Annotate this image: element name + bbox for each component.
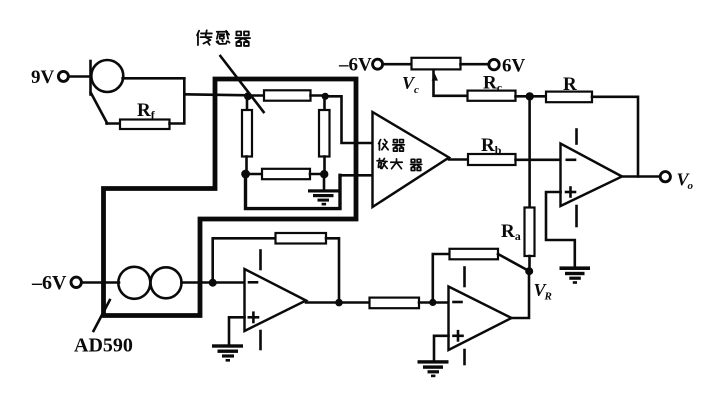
wire feedback resistor to output xyxy=(326,238,339,302)
wire to bridge top-left node xyxy=(184,94,248,95)
svg-text:AD590: AD590 xyxy=(74,335,133,357)
wire BL node around to amp lower input xyxy=(246,175,341,209)
label yi xyxy=(379,139,389,149)
terminal 6V circle xyxy=(489,59,499,69)
op-amp B top supply stub xyxy=(463,268,466,287)
node BL xyxy=(241,170,250,179)
pot wiper arrow xyxy=(432,74,438,81)
bridge resistor top xyxy=(264,90,311,100)
AD590 circle 1 xyxy=(118,267,150,299)
wire wiper down and right to Rc xyxy=(434,70,468,96)
node X junction xyxy=(526,92,534,100)
rail X down through Ra top xyxy=(528,96,531,207)
label da xyxy=(391,159,402,169)
node op-amp A output xyxy=(335,299,343,307)
label gan xyxy=(217,31,230,44)
feedback resistor op-amp A xyxy=(276,233,327,244)
wire op-amp A plus to ground xyxy=(229,317,245,344)
wire Rb to op-amp C inverting input xyxy=(516,159,561,162)
bridge resistor left xyxy=(242,110,252,157)
svg-text:o: o xyxy=(688,180,694,192)
bridge wire top resistor to TR xyxy=(311,94,326,97)
ground bridge xyxy=(308,189,339,205)
bridge wire BL to bottom resistor xyxy=(246,173,263,176)
svg-text:c: c xyxy=(414,84,419,96)
svg-text:–6V: –6V xyxy=(338,55,372,76)
label qi xyxy=(236,31,250,45)
label qi2 xyxy=(393,140,405,152)
wire op-amp B plus to ground xyxy=(434,336,449,361)
label 传感器 pointer slash xyxy=(220,56,263,112)
terminal -6V bottom circle xyxy=(71,277,81,287)
op-amp B xyxy=(449,287,512,351)
svg-text:R: R xyxy=(544,291,552,303)
wire coupling resistor to op-amp B xyxy=(419,301,449,304)
svg-text:–6V: –6V xyxy=(31,272,67,294)
ground op-amp C xyxy=(560,266,591,283)
wire op-amp B output to VR xyxy=(512,271,530,318)
op-amp B plus xyxy=(454,331,463,340)
bridge wire TL to top resistor xyxy=(248,94,264,97)
op-amp C bottom supply stub xyxy=(575,206,578,226)
wire Ra bottom to VR node xyxy=(528,256,531,271)
op-amp C top supply stub xyxy=(575,130,578,144)
svg-text:R: R xyxy=(563,74,577,95)
resistor R xyxy=(546,92,592,103)
wire -6V to AD590 xyxy=(81,281,119,284)
wire feedback diagonal to VR node xyxy=(498,254,529,271)
op-amp A bottom supply stub xyxy=(259,331,262,349)
ground op-amp A xyxy=(212,344,243,361)
bridge resistor bottom xyxy=(262,169,310,179)
wire Rc to R xyxy=(516,95,547,98)
wire -6V to pot xyxy=(383,63,412,66)
transistor Q1 emitter diagonal xyxy=(91,93,108,124)
bridge wire right resistor to BR xyxy=(323,157,326,175)
op-amp A plus xyxy=(249,313,258,322)
wire AD590 to op-amp A input xyxy=(182,281,245,284)
resistor Rc xyxy=(468,91,516,101)
resistor Ra xyxy=(525,208,535,257)
svg-text:6V: 6V xyxy=(502,56,526,77)
wire diagonal to Rf xyxy=(107,122,121,125)
terminal 9V circle xyxy=(58,71,68,81)
wire op-amp C plus input routing xyxy=(546,192,575,267)
op-amp A xyxy=(245,269,307,331)
wire into amp lower input xyxy=(340,174,373,177)
op-amp B bottom supply stub xyxy=(463,350,466,364)
op-amp C plus xyxy=(566,188,575,197)
wire op-amp C output xyxy=(622,175,660,178)
bridge wire TR down xyxy=(323,96,326,111)
transistor Q1 bar xyxy=(89,61,92,95)
wire op-amp B feedback up xyxy=(433,254,450,302)
wire inst amp output to Rb xyxy=(449,158,468,161)
node op-amp B input xyxy=(429,299,436,306)
label qi3 xyxy=(411,159,422,170)
sensor enclosure thick outline xyxy=(104,79,357,316)
feedback resistor op-amp B xyxy=(450,249,499,259)
wire R feedback to output xyxy=(592,97,638,177)
label chuan xyxy=(197,30,212,45)
wire pot to 6V xyxy=(461,63,490,66)
svg-text:9V: 9V xyxy=(31,67,55,88)
wire TR node to amp upper input xyxy=(325,96,373,143)
node BR xyxy=(320,170,328,178)
node VR xyxy=(525,267,533,275)
bridge resistor right xyxy=(319,110,330,157)
label fang xyxy=(377,158,387,168)
wire 9V to transistor xyxy=(69,75,91,78)
AD590 pointer line xyxy=(94,300,110,331)
op-amp C xyxy=(561,144,623,207)
resistor Rb xyxy=(468,154,516,165)
op-amp C minus xyxy=(567,159,575,162)
terminal Vo circle xyxy=(660,172,670,182)
node TL xyxy=(244,92,252,100)
node TR xyxy=(322,93,329,100)
wire op-amp A feedback up xyxy=(213,238,276,282)
bridge wire bottom resistor to BR xyxy=(310,173,324,176)
bridge wire left resistor to BL xyxy=(245,157,248,175)
coupling resistor A to B xyxy=(370,298,420,309)
node AD590 output xyxy=(209,279,217,287)
op-amp U1 instrumentation amplifier xyxy=(373,112,450,207)
AD590 circle 2 xyxy=(151,267,182,298)
transistor Q1 body circle xyxy=(91,60,123,92)
wire BR to ground xyxy=(323,174,326,190)
wire transistor to vertical corner xyxy=(123,77,185,80)
wire op-amp A output xyxy=(306,301,370,304)
terminal -6V top circle xyxy=(373,59,383,69)
bridge wire TL down xyxy=(246,96,249,111)
wire Rf right to vertical xyxy=(170,78,185,123)
ground op-amp B xyxy=(418,360,449,377)
op-amp B minus xyxy=(454,301,462,304)
op-amp A top supply stub xyxy=(259,251,262,270)
resistor Rf xyxy=(120,120,170,130)
potentiometer RP xyxy=(412,58,461,70)
op-amp A minus xyxy=(249,281,257,284)
